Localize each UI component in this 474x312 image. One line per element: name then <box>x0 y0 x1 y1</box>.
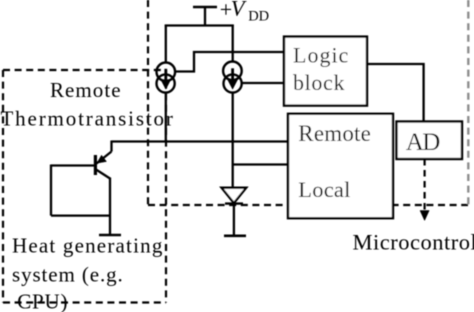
svg-text:Local: Local <box>298 177 350 202</box>
wire: right supply drop <box>232 25 234 62</box>
dashed border: microcontroller region right edge (gray) <box>467 0 469 205</box>
emitter diagonal <box>97 152 112 164</box>
wire: logic block to AD converter <box>367 64 424 122</box>
svg-text:Heat generating: Heat generating <box>12 233 164 257</box>
ground bar (transistor) <box>99 234 121 237</box>
AD converter block <box>397 122 463 160</box>
svg-text:Remote: Remote <box>50 78 122 102</box>
cathode stem <box>233 204 235 236</box>
current source I1 (left, two overlapping circles with down arrow) <box>157 63 176 93</box>
base loop left vertical <box>50 165 52 216</box>
wire: I1 output to logic block (step) <box>175 52 284 72</box>
svg-text:DD: DD <box>248 8 269 24</box>
transistor Q1 (remote PNP, diode connected) <box>51 141 121 236</box>
emitter drop <box>110 141 112 152</box>
wire: I2 output to logic block <box>241 82 284 84</box>
svg-text:Microcontroller: Microcontroller <box>353 230 474 255</box>
current source I2 (right, two overlapping circles with down arrow) <box>223 62 242 93</box>
base bar <box>94 155 97 175</box>
emitter arrowhead <box>97 155 107 163</box>
dashed border: microcontroller region left edge <box>147 0 149 205</box>
diode D1 (local) <box>222 188 247 236</box>
collector diagonal <box>96 170 110 179</box>
wire: left supply drop <box>165 25 167 63</box>
svg-text:system (e.g.: system (e.g. <box>12 262 124 286</box>
dashed border: remote thermotransistor box (left) <box>3 70 166 303</box>
label +VDD <box>220 0 269 24</box>
dashed border: microcontroller region bottom edge <box>148 204 468 206</box>
sensor block U2 (Remote/Local) <box>288 114 393 218</box>
base loop bottom wire <box>51 214 110 216</box>
svg-text:V: V <box>231 0 247 21</box>
wire: I1 bottom to remote line <box>165 92 167 142</box>
svg-text:Logic: Logic <box>293 42 349 67</box>
power symbol +VDD bar <box>193 6 217 9</box>
svg-text:block: block <box>293 70 345 95</box>
ground bar (diode) <box>224 235 246 238</box>
wire: local sense line <box>233 163 288 165</box>
label: Heat generating system (e.g. CPU) <box>12 233 164 312</box>
wire: I2 bottom to diode <box>232 92 234 188</box>
cathode bar <box>225 202 243 204</box>
label: Remote Thermotransistor <box>1 78 175 130</box>
svg-text:Remote: Remote <box>298 121 371 146</box>
wire: VDD stem <box>204 7 206 26</box>
dashed arrow: AD output to microcontroller <box>420 159 429 221</box>
svg-text:CPU): CPU) <box>17 290 68 312</box>
logic block U1 <box>284 37 367 106</box>
wire: remote sense line <box>112 140 289 142</box>
svg-text:Thermotransistor: Thermotransistor <box>1 106 175 130</box>
collector vertical <box>109 178 111 236</box>
svg-text:AD: AD <box>406 129 440 156</box>
wire: top supply rail <box>165 24 234 26</box>
base wire <box>51 164 94 166</box>
